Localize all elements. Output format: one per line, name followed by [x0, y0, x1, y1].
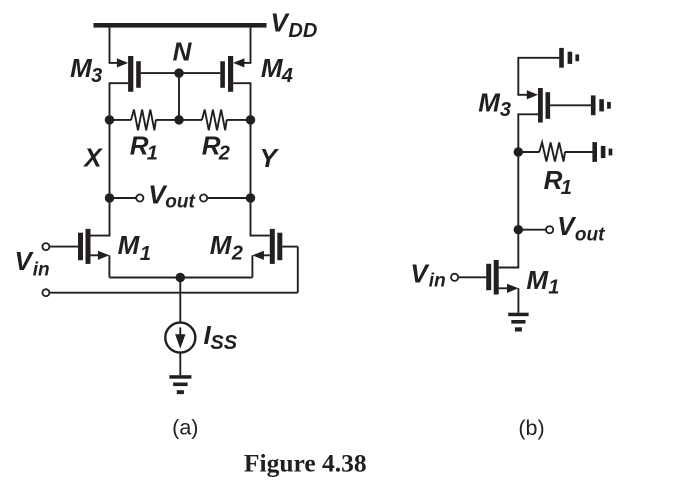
wire: [179, 72, 220, 74]
label R2: [202, 131, 230, 165]
wire: [207, 197, 250, 199]
node (tail junction): [176, 273, 186, 283]
wire: [242, 28, 251, 63]
svg-text:2: 2: [231, 243, 243, 265]
transistor M4: [220, 56, 244, 92]
svg-text:4: 4: [281, 65, 293, 87]
svg-text:(b): (b): [518, 416, 544, 440]
transistor M1: [78, 229, 109, 264]
caption Figure 4.38: [244, 448, 367, 477]
node N: [174, 68, 184, 78]
battery (VDD source, top): [559, 48, 579, 68]
svg-text:1: 1: [548, 277, 559, 299]
label ISS: [204, 320, 238, 354]
label Vin (b): [410, 258, 445, 291]
label R1 (b): [544, 165, 572, 199]
svg-text:M: M: [70, 53, 93, 83]
svg-text:M: M: [261, 53, 284, 83]
svg-text:X: X: [82, 143, 103, 173]
ground: [169, 375, 191, 394]
svg-text:2: 2: [218, 143, 230, 165]
wire: [499, 230, 520, 268]
svg-text:M: M: [210, 230, 233, 260]
svg-text:M: M: [478, 87, 501, 117]
terminal Vout left: [136, 194, 143, 201]
wire: [179, 278, 181, 323]
wire: [517, 114, 538, 152]
wire: [110, 197, 137, 199]
label Vout: [148, 179, 195, 212]
resistor R1: [131, 110, 156, 131]
ground (b): [508, 313, 528, 332]
wire: [50, 246, 79, 248]
node (left output): [105, 193, 115, 203]
terminal Vout (b): [546, 226, 553, 233]
wire: [109, 83, 129, 120]
resistor R1 (b): [539, 142, 565, 161]
caption (a): [172, 415, 198, 439]
wire: [518, 57, 559, 59]
transistor M1 (b): [486, 260, 518, 295]
label Vin: [15, 246, 50, 281]
label M3 (b): [478, 87, 511, 120]
node Y: [246, 115, 256, 125]
svg-text:in: in: [33, 260, 50, 281]
svg-text:(a): (a): [172, 415, 198, 439]
wire: [458, 276, 486, 278]
svg-text:DD: DD: [288, 20, 317, 42]
wire: [109, 28, 118, 63]
resistor R2: [202, 110, 227, 131]
wire: [91, 198, 111, 236]
transistor M2: [252, 229, 282, 264]
battery (R1 return source): [592, 142, 612, 162]
wire: [109, 277, 252, 279]
current source ISS: [165, 323, 195, 353]
label Y: [260, 143, 280, 173]
svg-text:SS: SS: [210, 332, 237, 354]
wire: [251, 255, 253, 277]
terminal Vout right: [200, 194, 207, 201]
label X: [82, 143, 103, 173]
wire: [178, 73, 180, 120]
wire: [110, 119, 132, 121]
svg-text:out: out: [165, 192, 195, 213]
svg-text:out: out: [575, 225, 605, 246]
wire: [517, 288, 519, 312]
label R1: [130, 131, 158, 165]
svg-text:Figure 4.38: Figure 4.38: [244, 448, 367, 477]
label M4: [261, 53, 293, 87]
node (R1-R2 junction at N): [174, 115, 184, 125]
wire: [518, 229, 546, 231]
transistor M3: [117, 56, 141, 92]
terminal Vin (b): [451, 274, 458, 281]
label N: [173, 36, 193, 66]
node X: [105, 115, 115, 125]
wire: [141, 72, 179, 74]
label M2: [210, 230, 243, 265]
wire: [179, 353, 181, 376]
svg-text:M: M: [118, 230, 141, 260]
svg-text:N: N: [173, 36, 193, 66]
wire: [550, 104, 591, 106]
wire: [517, 57, 527, 95]
svg-text:V: V: [410, 258, 430, 288]
battery (gate bias of M3): [591, 95, 611, 115]
svg-text:M: M: [526, 265, 549, 295]
wire: [179, 119, 202, 121]
svg-text:3: 3: [500, 99, 511, 121]
wire: [565, 151, 593, 153]
wire: [517, 152, 519, 230]
terminal Vin gate M2: [42, 289, 49, 296]
label Vout (b): [557, 211, 605, 245]
wire: [108, 255, 110, 277]
label M1 (b): [526, 265, 559, 298]
power rail VDD: [94, 23, 267, 28]
label M1: [118, 230, 151, 265]
wire: [227, 119, 251, 121]
wire: [233, 83, 251, 120]
wire: [250, 120, 252, 198]
transistor M3 (b): [527, 88, 550, 123]
label M3: [70, 53, 102, 87]
svg-text:in: in: [429, 271, 446, 292]
svg-text:1: 1: [140, 243, 151, 265]
wire: [50, 292, 298, 294]
node (right output): [246, 193, 256, 203]
node Vout (b): [514, 225, 524, 235]
svg-text:1: 1: [561, 177, 572, 199]
node (drain of M3 / R1): [514, 147, 524, 157]
wire: [518, 151, 539, 153]
wire: [156, 119, 179, 121]
label VDD: [271, 8, 318, 42]
wire: [282, 247, 298, 293]
caption (b): [518, 416, 544, 440]
terminal Vin gate M1: [42, 243, 49, 250]
wire: [109, 120, 111, 198]
svg-text:V: V: [15, 246, 35, 276]
svg-text:1: 1: [147, 143, 158, 165]
wire: [250, 198, 270, 236]
svg-text:3: 3: [91, 65, 102, 87]
svg-text:Y: Y: [260, 143, 280, 173]
